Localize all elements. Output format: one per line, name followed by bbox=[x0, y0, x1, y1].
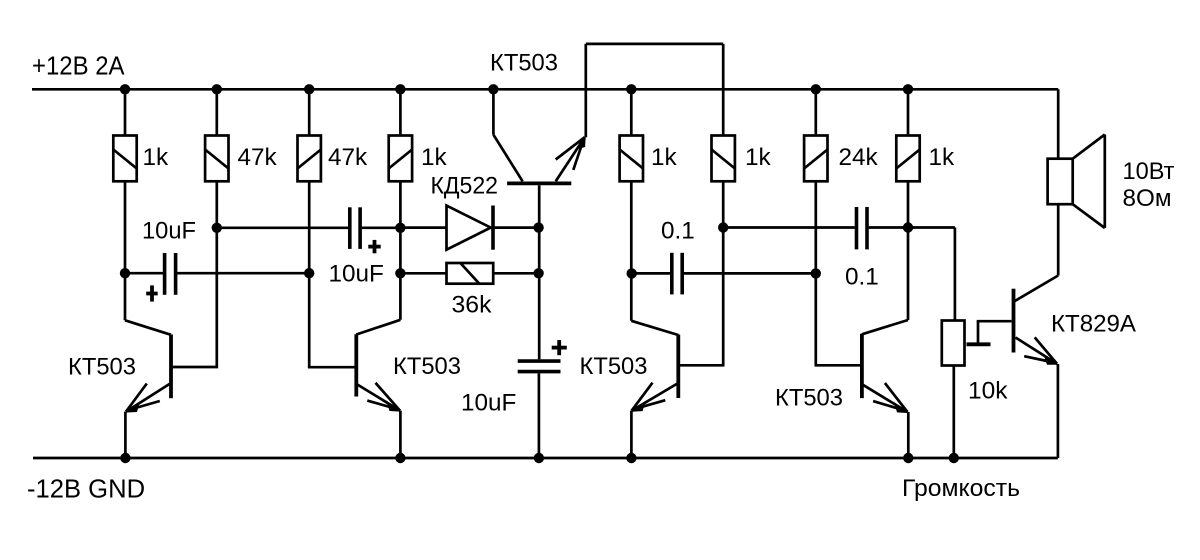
wire Q5 base down bbox=[538, 185, 541, 359]
resistor R4 1k bbox=[389, 136, 412, 182]
svg-text:КТ503: КТ503 bbox=[393, 353, 461, 380]
resistor R1 1k bbox=[113, 136, 136, 182]
transistor Q4 KT503 bbox=[862, 320, 908, 458]
label 0.1 C5 bbox=[845, 264, 879, 291]
label 24k R7 bbox=[839, 144, 879, 171]
label КТ503 Q2 bbox=[393, 353, 461, 380]
label 10uF C1 bbox=[142, 217, 196, 244]
wire column c7 lower to Q4 base bbox=[815, 181, 861, 365]
label Громкость bbox=[902, 475, 1020, 502]
wire column c8 lower bbox=[907, 181, 910, 320]
diode VD1 KD522 bbox=[400, 206, 538, 250]
label + C3 bbox=[552, 340, 567, 355]
capacitor C3 10uF electrolytic vertical bbox=[518, 361, 561, 458]
capacitor C4 0.1 bbox=[632, 253, 816, 295]
svg-text:0.1: 0.1 bbox=[845, 264, 879, 291]
resistor R5 1k bbox=[620, 136, 643, 182]
wire column c2 upper bbox=[215, 89, 218, 135]
svg-text:КТ503: КТ503 bbox=[68, 353, 136, 380]
wire column c8 upper bbox=[907, 89, 910, 135]
node dots middle bbox=[120, 222, 913, 278]
svg-text:24k: 24k bbox=[839, 144, 879, 171]
svg-text:Громкость: Громкость bbox=[902, 475, 1020, 502]
wire column c3 upper bbox=[308, 89, 311, 135]
wire column c4 lower bbox=[399, 181, 402, 319]
svg-text:КТ503: КТ503 bbox=[580, 353, 648, 380]
transistor Q3 KT503 bbox=[631, 321, 678, 458]
label 47k R2 bbox=[238, 144, 278, 171]
capacitor C5 0.1 bbox=[723, 207, 955, 249]
node dots top rail bbox=[120, 84, 913, 94]
wire speaker column lower bbox=[1057, 204, 1060, 275]
wire bridge vertical right to R6 bbox=[722, 44, 725, 136]
potentiometer R10 10k volume bbox=[942, 321, 1012, 459]
capacitor C1 10uF bbox=[125, 253, 309, 295]
resistor R8 1k bbox=[896, 136, 919, 182]
svg-text:8Ом: 8Ом bbox=[1123, 185, 1172, 212]
wire column c5 upper bbox=[630, 89, 633, 135]
transistor Q5 KT503 pnp-style inverted bbox=[493, 89, 585, 183]
svg-text:10Вт: 10Вт bbox=[1123, 158, 1175, 185]
svg-text:КТ503: КТ503 bbox=[775, 385, 843, 412]
label 10uF C3 bbox=[461, 390, 516, 417]
wire column c1 lower bbox=[124, 181, 127, 320]
label КТ503 Q5 bbox=[490, 50, 558, 77]
label 47k R3 bbox=[328, 144, 368, 171]
wire column c2 lower to Q1 base bbox=[173, 181, 218, 367]
label 36k bbox=[452, 292, 493, 319]
svg-text:КТ829А: КТ829А bbox=[1051, 310, 1137, 337]
wire c5 lower junction to ground via Q3 handled; wire pot top bbox=[954, 228, 957, 321]
svg-text:1k: 1k bbox=[929, 144, 956, 171]
label + C1 bbox=[146, 285, 158, 301]
wire top supply rail +12V bbox=[32, 88, 1058, 91]
node dots ground rail bbox=[120, 453, 959, 463]
label -12В GND bbox=[27, 476, 145, 504]
svg-text:0.1: 0.1 bbox=[661, 217, 695, 244]
transistor Q1 KT503 bbox=[125, 320, 171, 458]
svg-text:47k: 47k bbox=[238, 144, 278, 171]
wire bridge top horizontal bbox=[586, 43, 723, 46]
wire column c1 upper bbox=[124, 89, 127, 135]
label 10Вт bbox=[1123, 158, 1175, 185]
wire emitter bridge vertical left bbox=[584, 44, 587, 137]
label + C2 bbox=[368, 240, 380, 253]
resistor R6 1k bbox=[712, 136, 735, 182]
label КТ503 Q1 bbox=[68, 353, 136, 380]
svg-text:10k: 10k bbox=[968, 378, 1008, 405]
svg-text:36k: 36k bbox=[452, 292, 493, 319]
transistor Q2 KT503 bbox=[356, 320, 400, 458]
svg-text:1k: 1k bbox=[651, 144, 678, 171]
wire column c3 lower to Q2 base bbox=[308, 181, 355, 367]
speaker LS1 bbox=[1048, 135, 1105, 229]
wire column c5 lower bbox=[630, 181, 633, 321]
label 1k R5 bbox=[651, 144, 678, 171]
svg-text:10uF: 10uF bbox=[329, 261, 384, 288]
label КТ503 Q3 bbox=[580, 353, 648, 380]
svg-text:1k: 1k bbox=[421, 144, 448, 171]
svg-text:1k: 1k bbox=[745, 144, 772, 171]
wire speaker column upper bbox=[1057, 89, 1060, 158]
label КТ503 Q4 bbox=[775, 385, 843, 412]
svg-text:1k: 1k bbox=[143, 144, 170, 171]
label 10k bbox=[968, 378, 1008, 405]
wire column c4 upper bbox=[399, 89, 402, 135]
svg-text:47k: 47k bbox=[328, 144, 368, 171]
transistor Q6 KT829A bbox=[1014, 276, 1059, 459]
wire column c6 lower to Q3 base bbox=[680, 181, 725, 365]
label 10uF C2 bbox=[329, 261, 384, 288]
label КТ829А bbox=[1051, 310, 1137, 337]
label 0.1 C4 bbox=[661, 217, 695, 244]
label 1k R1 bbox=[143, 144, 170, 171]
capacitor C2 10uF bbox=[217, 207, 401, 249]
svg-text:КТ503: КТ503 bbox=[490, 50, 558, 77]
label 1k R4 bbox=[421, 144, 448, 171]
label +12В 2А bbox=[32, 53, 125, 81]
wire bottom ground rail bbox=[33, 457, 1058, 460]
svg-text:-12В GND: -12В GND bbox=[27, 476, 145, 504]
svg-text:10uF: 10uF bbox=[142, 217, 196, 244]
resistor R9 36k bbox=[400, 263, 538, 284]
resistor R3 47k bbox=[298, 136, 321, 182]
svg-text:+12В 2А: +12В 2А bbox=[32, 53, 125, 81]
resistor R7 24k bbox=[804, 136, 827, 182]
label 8Ом bbox=[1123, 185, 1172, 212]
resistor R2 47k bbox=[205, 136, 228, 182]
wire column c7 upper bbox=[814, 89, 817, 135]
label 1k R8 bbox=[929, 144, 956, 171]
label 1k R6 bbox=[745, 144, 772, 171]
svg-text:10uF: 10uF bbox=[461, 390, 516, 417]
label КД522 bbox=[431, 172, 499, 199]
svg-text:КД522: КД522 bbox=[431, 172, 499, 199]
